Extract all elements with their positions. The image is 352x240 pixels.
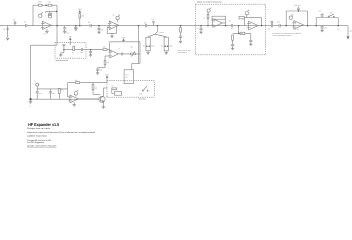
- svg-text:Gain Select: Gain Select: [139, 97, 147, 100]
- svg-text:47n: 47n: [101, 29, 104, 32]
- svg-text:HF Expander v1.5: HF Expander v1.5: [28, 122, 60, 127]
- svg-text:Added active audio control aft: Added active audio control after tune (1…: [27, 131, 95, 134]
- svg-text:1k2: 1k2: [48, 1, 51, 4]
- svg-text:1k: 1k: [203, 17, 205, 20]
- svg-text:50k: 50k: [130, 46, 133, 49]
- svg-text:U1: U1: [44, 33, 46, 36]
- svg-text:10u: 10u: [144, 21, 147, 24]
- svg-text:Addition of J.C filter from fo: Addition of J.C filter from forum post: [197, 0, 222, 3]
- svg-text:youtube.com/watch?v=expander: youtube.com/watch?v=expander: [27, 144, 57, 147]
- svg-text:C12: C12: [277, 21, 280, 24]
- svg-text:+: +: [183, 36, 184, 39]
- svg-text:C8: C8: [151, 18, 153, 21]
- svg-text:select: select: [159, 31, 164, 34]
- svg-text:C11: C11: [268, 28, 271, 31]
- svg-text:47n: 47n: [319, 10, 322, 13]
- svg-text:10k: 10k: [75, 79, 78, 82]
- svg-text:Boost Control Box: Boost Control Box: [56, 59, 69, 62]
- svg-text:more sustain control: more sustain control: [273, 34, 293, 37]
- svg-text:10u: 10u: [324, 27, 327, 30]
- svg-text:J1: J1: [3, 28, 5, 31]
- svg-text:100k: 100k: [38, 1, 42, 4]
- svg-text:C9: C9: [229, 20, 231, 23]
- svg-text:Changes from up to date: Changes from up to date: [27, 127, 50, 130]
- svg-text:10u: 10u: [66, 31, 69, 34]
- svg-text:1u: 1u: [231, 27, 233, 30]
- svg-text:10k: 10k: [81, 15, 84, 18]
- svg-text:C1: C1: [13, 19, 15, 22]
- svg-text:10k: 10k: [103, 45, 106, 48]
- svg-text:R18 10k: R18 10k: [294, 4, 300, 7]
- svg-text:1k: 1k: [113, 14, 115, 17]
- svg-text:C3: C3: [88, 21, 90, 24]
- svg-text:C2: C2: [24, 21, 26, 24]
- svg-text:Added Gain Box: Added Gain Box: [27, 134, 47, 137]
- svg-text:TL072: TL072: [295, 28, 300, 31]
- svg-text:Rx: Rx: [337, 28, 339, 31]
- svg-text:For 2019 Suggestion.: For 2019 Suggestion.: [27, 141, 45, 144]
